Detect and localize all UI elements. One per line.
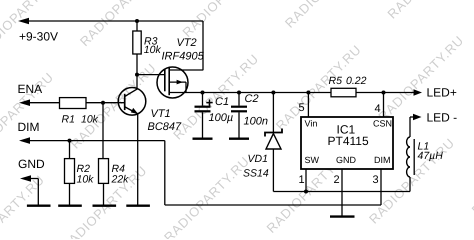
wire pin 3: [373, 169, 382, 205]
svg-text:10k: 10k: [81, 113, 99, 125]
node +9-30V input: [18, 18, 58, 44]
svg-text:4: 4: [375, 103, 381, 115]
junction base node: [101, 101, 105, 105]
junction pin 5 node: [306, 91, 310, 95]
svg-text:22k: 22k: [111, 173, 130, 185]
wire gate: [137, 74, 164, 76]
resistor R1: [25, 98, 103, 126]
node DIM input: [18, 120, 40, 144]
node ENA input: [18, 82, 43, 106]
svg-text:VD1: VD1: [248, 153, 268, 165]
ground C1: [193, 137, 213, 139]
capacitor C2: [231, 93, 268, 138]
wire pin 5: [299, 93, 309, 118]
ground C2: [229, 137, 249, 139]
svg-text:VT1: VT1: [151, 108, 171, 120]
svg-text:DIM: DIM: [18, 120, 40, 134]
ground VT1 emitter: [126, 204, 150, 206]
svg-text:0.22: 0.22: [346, 75, 367, 87]
junction gate node: [135, 73, 139, 77]
wire pin 4: [375, 93, 384, 118]
svg-text:C1: C1: [215, 96, 229, 108]
svg-text:GND: GND: [18, 157, 45, 171]
wire Vin rail: [203, 92, 415, 94]
resistor R3: [133, 21, 162, 75]
svg-text:Vin: Vin: [305, 118, 318, 128]
svg-text:GND: GND: [336, 155, 357, 165]
svg-text:100n: 100n: [244, 115, 268, 127]
node GND input: [18, 157, 45, 205]
resistor R2: [65, 141, 95, 205]
svg-text:100µ: 100µ: [209, 112, 234, 124]
wire pin 1: [299, 169, 307, 192]
svg-text:10k: 10k: [144, 44, 162, 56]
inductor L1: [407, 117, 444, 192]
transistor VT2: [157, 37, 205, 98]
node LED- output: [410, 110, 457, 124]
svg-text:1: 1: [299, 174, 305, 186]
svg-text:2: 2: [334, 174, 340, 186]
svg-text:5: 5: [299, 102, 305, 114]
svg-text:LED+: LED+: [427, 85, 457, 99]
svg-text:3: 3: [373, 174, 379, 186]
ground R2: [58, 204, 82, 206]
junction C1: [201, 91, 205, 95]
ground R4: [93, 204, 117, 206]
diode VD1: [243, 93, 282, 192]
svg-text:PT4115: PT4115: [328, 134, 369, 148]
svg-text:C2: C2: [245, 93, 259, 105]
wire pin 2: [334, 169, 343, 216]
wire top rail: [24, 21, 203, 70]
node LED+ output: [414, 85, 457, 99]
resistor R5: [329, 75, 367, 97]
svg-text:IRF4905: IRF4905: [162, 50, 205, 62]
junction R2 top: [68, 139, 72, 143]
svg-text:CSN: CSN: [373, 118, 392, 128]
IC IC1 PT4115: [301, 117, 393, 169]
ground GND input: [27, 204, 51, 206]
junction VD1: [271, 91, 275, 95]
svg-text:+9-30V: +9-30V: [19, 30, 58, 44]
wire base: [103, 102, 125, 104]
junction pin 4 node: [382, 91, 386, 95]
junction C2: [237, 91, 241, 95]
svg-text:BC847: BC847: [148, 121, 183, 133]
ground IC GND: [330, 215, 355, 217]
svg-text:R5: R5: [329, 75, 343, 87]
junction R3 top: [135, 19, 139, 23]
capacitor C1: [195, 93, 234, 138]
resistor R4: [99, 103, 130, 205]
svg-text:VT2: VT2: [177, 37, 197, 49]
wire SW line: [273, 191, 410, 193]
svg-text:ENA: ENA: [18, 82, 43, 96]
wire DIM bus: [25, 141, 381, 205]
svg-text:SS14: SS14: [243, 168, 269, 180]
wire VT1 emitter: [137, 114, 139, 205]
svg-text:LED -: LED -: [427, 110, 458, 124]
svg-text:DIM: DIM: [374, 155, 391, 165]
transistor VT1: [118, 88, 182, 133]
svg-text:SW: SW: [305, 155, 320, 165]
junction SW node: [304, 190, 308, 194]
svg-text:47µH: 47µH: [418, 150, 444, 162]
svg-text:R1: R1: [62, 113, 75, 125]
wire VT1 collector: [136, 75, 138, 89]
svg-text:10k: 10k: [77, 173, 95, 185]
